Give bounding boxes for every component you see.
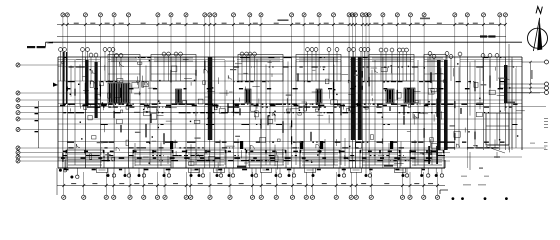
right wing label [507,102,515,104]
party walls and cores [63,52,508,164]
interior floor lines [58,67,522,161]
bay windows top [108,55,446,82]
top dimension line [57,24,506,26]
bottom dimension texts [71,183,433,184]
top window band lines [58,59,522,62]
window sill dashes [60,88,503,170]
right vertical dimension line [530,62,532,93]
bottom area texts [237,166,246,168]
left grid lines [20,65,546,161]
canopy leader arrow [47,42,54,43]
bottom small dots [452,197,508,200]
top dimension texts [74,23,494,24]
bottom dimension line [57,185,445,187]
interior walls [63,57,516,168]
top grid bubble row [61,13,508,17]
canopy outline line [46,41,523,43]
fixture dots [69,60,519,164]
right annotation text [480,35,487,37]
left section arrow mark [53,83,58,87]
room fixtures and details [62,59,525,169]
secondary grid bubbles [59,48,499,81]
right grid lines [522,61,545,63]
left annotation text [27,46,35,48]
north arrow [528,7,548,51]
right wing rooms [486,113,522,153]
right margin small texts [544,118,548,150]
filled wall segments [62,57,517,162]
building outer walls [58,57,522,168]
balcony band line [58,157,445,159]
overall dimension line 2 [57,35,506,37]
top grid extension lines [63,17,506,168]
balconies [66,150,444,168]
downpipe leader bubbles [59,160,444,179]
left grid bubbles [16,63,20,163]
bottom right corner mark [440,189,448,191]
left fence line [37,101,39,148]
stair flights [108,83,415,103]
overall dimension text 7370 [278,19,289,21]
door swing arcs [76,62,509,159]
entry steps [97,168,406,173]
right grid bubbles [545,60,549,95]
right end wall lines [508,44,510,150]
bottom grid bubbles [62,172,440,199]
room label texts [97,69,505,155]
stair landing blocks [170,141,393,149]
balcony posts [66,150,445,153]
right wing leader lines [469,152,471,170]
